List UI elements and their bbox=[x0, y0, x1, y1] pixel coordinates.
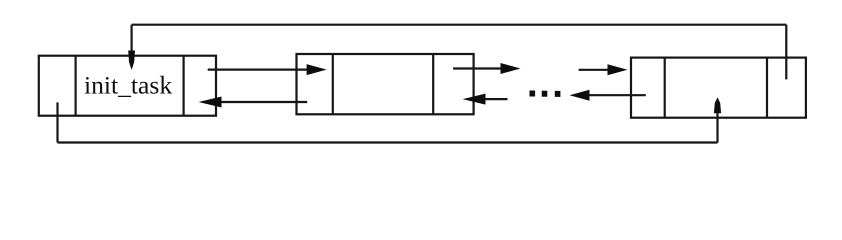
wire prev arrow box2 to box1 bbox=[220, 101, 307, 103]
wire top loop right leg down into box3 right cell bbox=[785, 25, 787, 80]
box3 divider left bbox=[664, 58, 666, 118]
wire top loop left leg down to box1 bbox=[131, 25, 133, 52]
arrowhead down into box1 top bbox=[128, 51, 135, 71]
box3 rectangle bbox=[631, 58, 806, 118]
wire next arrow box1 to box2 bbox=[208, 68, 308, 70]
box1 divider left bbox=[74, 56, 76, 116]
arrowhead right end of box2 next line bbox=[501, 63, 521, 74]
dots ellipsis dot 1 bbox=[530, 91, 536, 97]
wire bottom loop leg up into box3 bbox=[716, 112, 718, 143]
arrowhead left end of box3 prev line bbox=[570, 90, 590, 101]
wire prev arrow from dots into box2 bbox=[484, 98, 508, 100]
dots ellipsis dot 3 bbox=[555, 91, 561, 97]
wire next arrow box2 toward dots bbox=[453, 67, 502, 69]
box2 rectangle bbox=[297, 54, 474, 114]
arrowhead up into box3 bottom bbox=[714, 97, 721, 113]
wire next arrow from dots to box3 bbox=[579, 69, 609, 71]
arrowhead right into box3 left edge bbox=[608, 64, 628, 75]
box2 divider right bbox=[432, 54, 434, 114]
box3 divider right bbox=[766, 58, 768, 118]
svg-text:init_task: init_task bbox=[84, 71, 172, 100]
box1 init_task rectangle bbox=[39, 56, 216, 116]
wire bottom loop horizontal bbox=[58, 141, 718, 143]
wire prev arrow box3 toward dots bbox=[588, 94, 646, 96]
arrowhead left into box1 right cell bbox=[199, 97, 222, 108]
dots ellipsis dot 2 bbox=[542, 91, 548, 97]
box2 divider left bbox=[332, 54, 334, 114]
wire top loop horizontal bbox=[132, 24, 787, 26]
arrowhead right into box2 left cell bbox=[307, 64, 327, 75]
box1 divider right bbox=[183, 56, 185, 116]
wire bottom loop leg from box1 left cell bbox=[56, 102, 58, 142]
arrowhead left into box2 right cell bbox=[463, 94, 486, 105]
